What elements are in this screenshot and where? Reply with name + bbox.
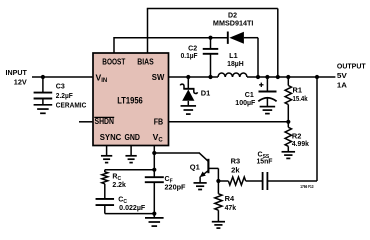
svg-text:C1: C1 xyxy=(245,92,254,99)
ground main VC xyxy=(145,218,164,226)
svg-text:D1: D1 xyxy=(201,91,211,98)
wire SW line xyxy=(169,76,219,78)
svg-text:220pF: 220pF xyxy=(165,184,187,191)
node VC collector junction xyxy=(152,151,156,155)
svg-text:SW: SW xyxy=(152,72,165,82)
ground R2 xyxy=(282,152,296,159)
wire BIAS rail drop to output xyxy=(277,9,279,78)
pin label BOOST xyxy=(102,57,126,67)
pin label FB xyxy=(154,116,164,126)
wire C1 bottom xyxy=(266,98,268,106)
label CF 220pF xyxy=(165,176,187,191)
svg-text:SYNC: SYNC xyxy=(100,132,122,142)
svg-text:1A: 1A xyxy=(337,83,347,90)
node compensation ground junction xyxy=(152,212,156,216)
label Q1 xyxy=(190,165,200,172)
svg-text:R3: R3 xyxy=(231,158,241,165)
inductor L1 xyxy=(218,73,247,77)
pin label SW xyxy=(152,72,165,82)
IC name LT1956 xyxy=(117,95,143,105)
node C2 bottom junction xyxy=(208,75,212,79)
ground GND pin xyxy=(125,156,136,163)
wire D1 to SW line xyxy=(187,77,189,89)
pin label GND xyxy=(124,132,140,142)
wire R1 bottom xyxy=(287,105,289,122)
svg-text:OUTPUT: OUTPUT xyxy=(337,64,367,71)
svg-text:CERAMIC: CERAMIC xyxy=(56,102,87,109)
wire VC pin drop xyxy=(153,146,155,178)
node BIAS rail junction xyxy=(276,75,280,79)
node C2 top junction xyxy=(208,36,212,40)
wire SHDN stub xyxy=(79,121,93,123)
wire RC branch xyxy=(105,170,155,173)
ground C1 xyxy=(260,107,276,114)
svg-text:2.2k: 2.2k xyxy=(112,182,126,189)
pin label SYNC xyxy=(100,132,122,142)
wire Q1 emitter xyxy=(199,177,201,183)
svg-text:D2: D2 xyxy=(228,13,237,20)
pin label BIAS xyxy=(137,57,154,67)
wire R2 top xyxy=(287,122,289,128)
ground R4 xyxy=(212,222,225,228)
resistor R3 xyxy=(228,177,245,185)
label R3 2k xyxy=(231,158,241,174)
svg-text:BOOST: BOOST xyxy=(102,57,126,67)
node FB junction xyxy=(286,120,290,124)
wire base to R3 xyxy=(218,180,228,182)
svg-text:0.022µF: 0.022µF xyxy=(119,205,146,212)
capacitor CSS xyxy=(263,172,268,190)
svg-text:BIAS: BIAS xyxy=(137,57,154,67)
svg-text:L1: L1 xyxy=(229,53,238,60)
wire R3 to CSS xyxy=(246,180,263,182)
wire Q1 base lead xyxy=(208,168,218,181)
pin label SHDN with overline xyxy=(94,116,114,126)
wire BOOST pin riser xyxy=(113,37,115,54)
label C1 100uF xyxy=(235,92,256,107)
wire C3 to input node xyxy=(42,77,44,92)
svg-text:LT1956: LT1956 xyxy=(117,95,143,105)
wire D2 anode xyxy=(244,38,258,77)
svg-text:47k: 47k xyxy=(225,205,237,212)
svg-text:4.99k: 4.99k xyxy=(292,141,309,148)
svg-text:18µH: 18µH xyxy=(227,61,244,68)
wire CC bottom xyxy=(105,205,155,214)
svg-text:0.1µF: 0.1µF xyxy=(181,53,199,60)
wire SYNC pin xyxy=(106,146,108,156)
label L1 18uH xyxy=(227,53,244,68)
resistor R1 xyxy=(285,86,291,105)
resistor R2 xyxy=(285,127,291,146)
ground Q1 emitter xyxy=(194,183,207,190)
node D2 anode junction xyxy=(256,75,260,79)
wire R4 top xyxy=(217,181,219,194)
label R2 4.99k xyxy=(292,133,309,148)
label INPUT 12V xyxy=(6,70,28,86)
ground SYNC xyxy=(101,156,112,163)
capacitor C1 polarized xyxy=(258,83,276,102)
wire GND pin xyxy=(130,146,132,156)
label OUTPUT 5V 1A xyxy=(337,64,367,90)
pin label VIN xyxy=(96,73,108,85)
node D1 junction xyxy=(186,75,190,79)
label CC 0.022uF xyxy=(118,197,146,213)
node VC RC junction xyxy=(152,168,156,172)
svg-text:1766 F13: 1766 F13 xyxy=(300,184,314,189)
resistor R4 xyxy=(215,194,222,210)
label R1 15.4k xyxy=(293,87,308,103)
label RC 2.2k xyxy=(112,174,126,189)
wire R1 top xyxy=(287,77,289,86)
svg-text:R2: R2 xyxy=(292,133,302,140)
label CSS 15nF xyxy=(257,151,274,165)
resistor RC xyxy=(102,172,108,184)
node input/C3 junction xyxy=(41,75,45,79)
figure label 1766 F13 xyxy=(300,184,314,189)
node Q1 base junction xyxy=(216,179,220,183)
svg-text:15nF: 15nF xyxy=(257,158,274,165)
svg-text:R4: R4 xyxy=(225,196,235,203)
label D2 MMSD914TI xyxy=(213,13,254,28)
wire VC to Q1 collector xyxy=(154,152,199,154)
pin label VC xyxy=(153,132,164,144)
svg-text:15.4k: 15.4k xyxy=(293,96,308,103)
wire D1 anode xyxy=(187,101,189,105)
wire C2 top xyxy=(210,38,212,49)
node soft-start junction xyxy=(315,75,319,79)
wire C2 bottom to SW line xyxy=(210,54,212,77)
svg-text:2.2µF: 2.2µF xyxy=(56,93,74,100)
label D1 xyxy=(201,91,211,98)
label R4 47k xyxy=(225,196,237,212)
svg-text:12V: 12V xyxy=(14,80,27,87)
wire R4 bottom xyxy=(217,210,219,221)
wire BIAS pin riser xyxy=(147,9,149,54)
svg-text:INPUT: INPUT xyxy=(6,70,28,77)
wire FB line xyxy=(169,121,289,123)
wire R2 bottom xyxy=(287,146,289,151)
svg-text:GND: GND xyxy=(124,132,140,142)
svg-text:5V: 5V xyxy=(337,73,347,80)
wire BIAS top rail xyxy=(147,8,278,10)
capacitor C3 xyxy=(34,93,53,99)
capacitor CF xyxy=(145,177,164,182)
wire CF to ground xyxy=(153,182,155,217)
wire C1 top xyxy=(266,77,268,92)
svg-text:Q1: Q1 xyxy=(190,165,200,172)
capacitor C2 xyxy=(203,49,219,54)
transistor Q1 xyxy=(199,153,209,177)
wire output line xyxy=(247,76,335,78)
svg-text:MMSD914TI: MMSD914TI xyxy=(213,20,254,27)
wire C3 to ground xyxy=(42,99,44,105)
svg-text:100µF: 100µF xyxy=(235,100,256,107)
wire input to VIN pin xyxy=(32,76,93,78)
svg-text:C2: C2 xyxy=(188,46,197,53)
ground C3 xyxy=(34,105,53,114)
svg-text:R1: R1 xyxy=(293,87,303,94)
svg-text:2k: 2k xyxy=(231,168,240,175)
capacitor CC xyxy=(96,199,115,205)
ground D1 xyxy=(181,106,197,114)
diode D1 schottky xyxy=(180,84,197,101)
wire RC to CC xyxy=(104,184,106,199)
diode D2 xyxy=(228,32,244,44)
label C3 2.2uF CERAMIC xyxy=(56,83,87,109)
op-amp U1 LT1956 regulator IC body xyxy=(93,53,169,146)
label C2 0.1uF xyxy=(181,46,199,61)
svg-text:FB: FB xyxy=(154,116,164,126)
svg-text:C3: C3 xyxy=(56,83,65,90)
node R1 junction xyxy=(286,75,290,79)
wire CSS to output xyxy=(267,77,317,181)
node C1 junction xyxy=(265,75,269,79)
wire BOOST line to D2 cathode xyxy=(114,37,228,39)
